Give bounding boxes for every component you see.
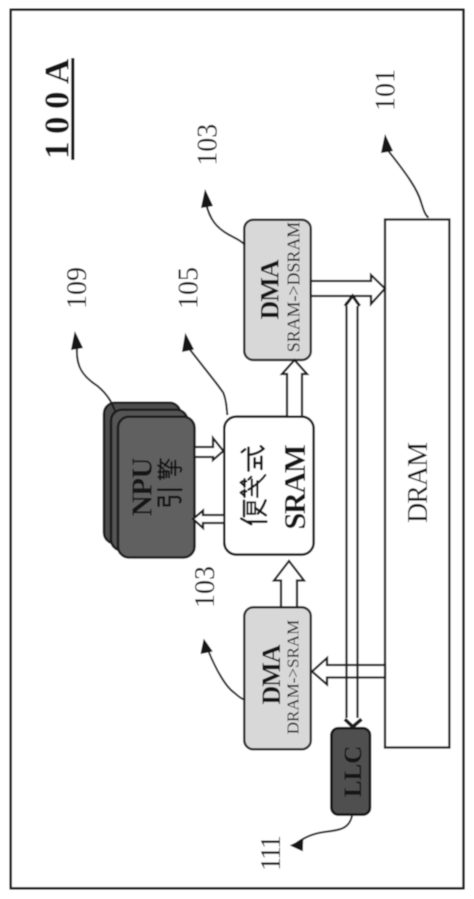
svg-text:109: 109 — [62, 267, 93, 309]
block LLC (111) — [331, 728, 370, 814]
block DMA SRAM->DSRAM (103) — [244, 220, 310, 360]
svg-text:103: 103 — [190, 566, 221, 608]
bus arrow SRAM to NPU — [193, 511, 224, 529]
bus arrow SRAM to DMA SRAM->DSRAM — [282, 360, 307, 417]
block DRAM (101) — [385, 220, 449, 748]
bus arrow NPU to SRAM — [195, 438, 224, 460]
bus arrow DMA SRAM->DSRAM to DRAM — [311, 275, 385, 304]
svg-text:103: 103 — [193, 124, 224, 166]
block NPU engine stack (109) — [104, 403, 195, 558]
svg-text:DRAM->SRAM: DRAM->SRAM — [284, 620, 303, 734]
svg-text:NPU: NPU — [127, 457, 159, 516]
bus arrow DMA DRAM->SRAM to SRAM — [274, 561, 304, 607]
svg-text:SRAM: SRAM — [278, 445, 312, 530]
svg-text:111: 111 — [256, 836, 287, 871]
double-line link LLC to DRAM bus — [347, 302, 358, 718]
open arrowhead at DRAM-bus end — [345, 296, 360, 306]
svg-text:DMA: DMA — [257, 644, 286, 704]
open arrowhead at LLC end — [345, 719, 362, 727]
svg-text:100A: 100A — [38, 51, 77, 159]
svg-text:101: 101 — [371, 69, 402, 111]
svg-text:SRAM->DSRAM: SRAM->DSRAM — [284, 222, 304, 352]
svg-text:LLC: LLC — [340, 746, 367, 797]
svg-text:DMA: DMA — [256, 259, 285, 319]
block DMA DRAM->SRAM (103) — [244, 607, 310, 749]
SRAM box label text 便笺式 / SRAM — [241, 446, 267, 524]
svg-text:DRAM: DRAM — [403, 442, 434, 523]
block scratchpad SRAM (105) — [224, 417, 313, 555]
svg-text:105: 105 — [174, 267, 205, 309]
bus arrow DRAM to DMA DRAM->SRAM — [312, 658, 385, 685]
